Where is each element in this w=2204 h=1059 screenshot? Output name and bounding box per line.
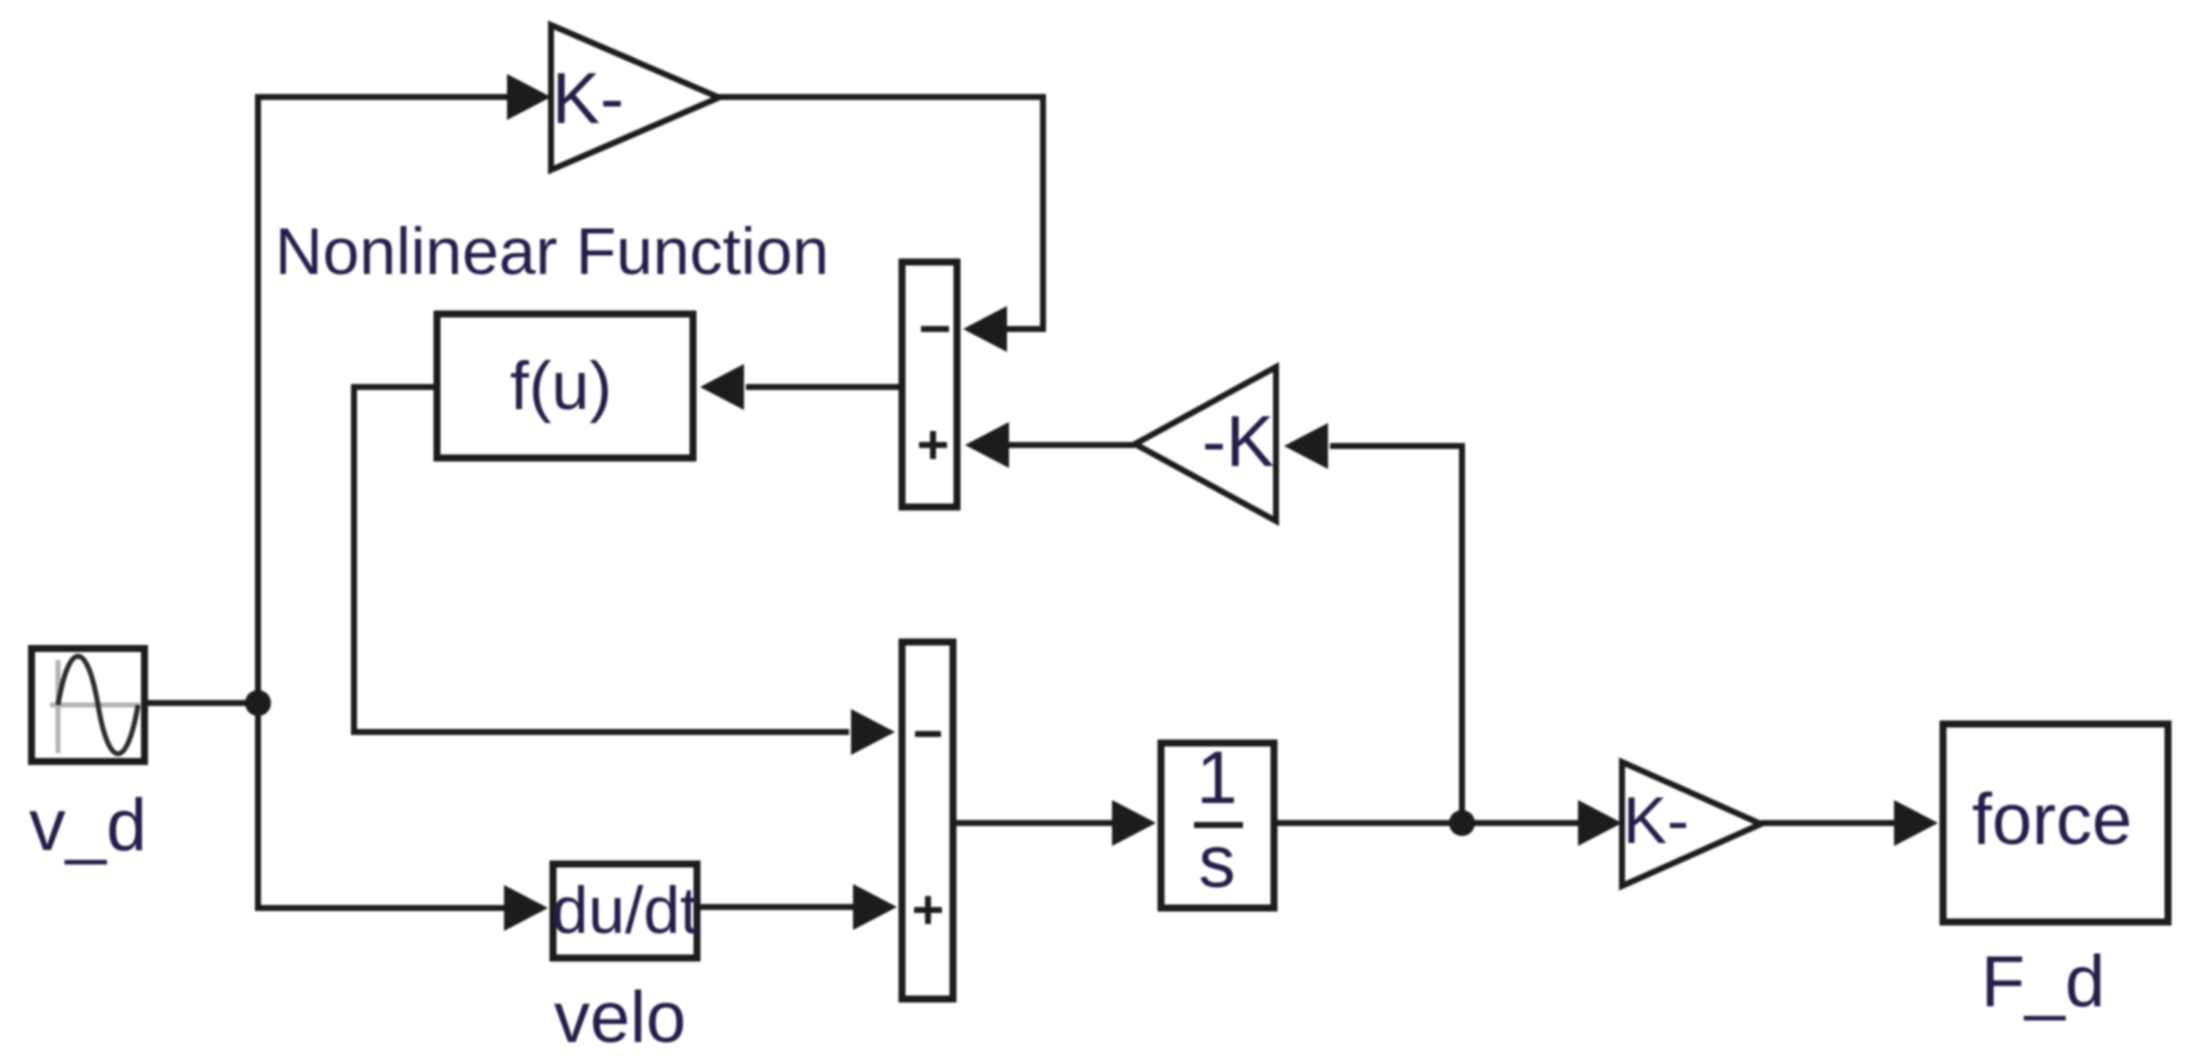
svg-text:1: 1 [1196, 736, 1237, 819]
svg-text:-K: -K [1202, 402, 1274, 482]
wire sum S2 output to integrator input [956, 820, 1112, 826]
sum block S1 [902, 262, 957, 507]
function block f(u) [437, 314, 693, 458]
svg-text:K-: K- [552, 59, 624, 139]
wire gain K- output to sum S1 minus input [719, 97, 1043, 329]
source block v_d (sine wave) [32, 649, 145, 762]
gain K- (output stage) [1622, 762, 1761, 886]
gain -K (feedback) [1135, 367, 1276, 521]
svg-text:F_d: F_d [1981, 942, 2105, 1022]
svg-text:velo: velo [554, 978, 686, 1058]
svg-text:force: force [1972, 780, 2132, 860]
svg-text:K-: K- [1623, 783, 1689, 857]
wire gain K- output to force block [1761, 820, 1894, 826]
wire f(u) output down to sum S2 minus input [354, 387, 849, 732]
wire J1 down and right to du/dt input [258, 703, 504, 908]
svg-text:Nonlinear Function: Nonlinear Function [275, 214, 829, 288]
junction node J1 [245, 690, 271, 716]
integrator block 1/s [1161, 736, 1274, 908]
wire du/dt output to sum S2 plus input [700, 904, 853, 910]
svg-text:v_d: v_d [29, 785, 147, 866]
wire sum S1 output to f(u) input [746, 384, 899, 390]
sum block S2 [902, 642, 953, 999]
svg-text:du/dt: du/dt [552, 873, 699, 947]
wire gain -K output to sum S1 plus input [1009, 442, 1135, 448]
gain K- (top) [551, 25, 719, 170]
wire J2 up to gain -K input [1330, 446, 1462, 823]
wire sine output to junction J1 [145, 700, 258, 706]
wire integrator output to junction J2 and gain K- input [1277, 820, 1578, 826]
junction node J2 [1449, 810, 1475, 836]
wire J1 up and right to gain K- input [258, 97, 509, 703]
derivative block du/dt [552, 864, 699, 958]
svg-text:s: s [1199, 820, 1236, 903]
svg-text:f(u): f(u) [510, 348, 612, 424]
output block force [1943, 724, 2168, 922]
